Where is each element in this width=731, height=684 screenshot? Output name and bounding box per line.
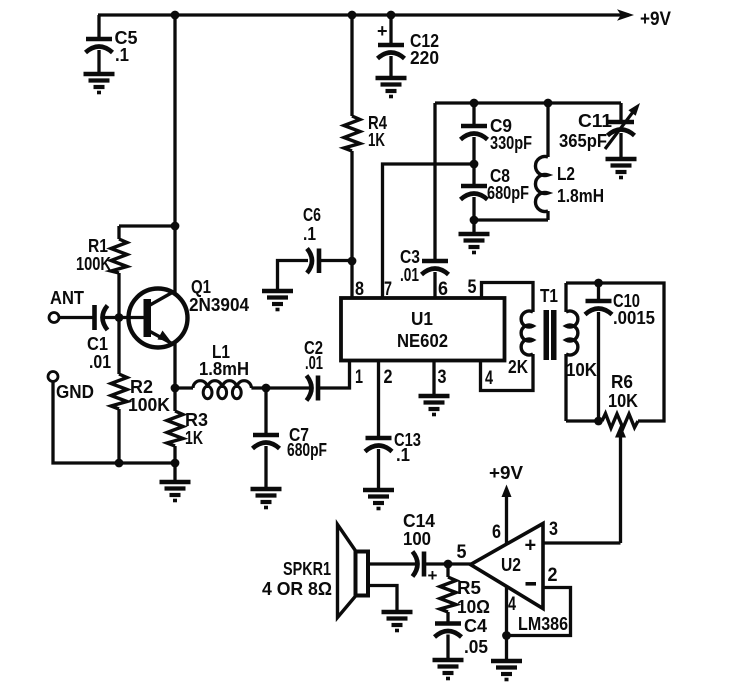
svg-text:L2: L2 — [557, 163, 575, 184]
svg-text:4 OR 8Ω: 4 OR 8Ω — [262, 578, 332, 599]
svg-text:6: 6 — [438, 279, 448, 300]
svg-text:1: 1 — [355, 367, 363, 388]
svg-text:U1: U1 — [411, 308, 433, 329]
svg-text:10K: 10K — [608, 390, 639, 411]
svg-text:ANT: ANT — [50, 287, 85, 308]
svg-text:220: 220 — [410, 47, 439, 68]
svg-text:.01: .01 — [305, 352, 323, 373]
svg-text:330pF: 330pF — [490, 132, 532, 153]
svg-text:2: 2 — [548, 565, 558, 586]
svg-text:1.8mH: 1.8mH — [199, 358, 249, 379]
svg-text:365pF: 365pF — [559, 130, 607, 151]
svg-text:4: 4 — [508, 594, 516, 615]
svg-text:5: 5 — [457, 542, 467, 563]
svg-text:5: 5 — [468, 277, 477, 298]
svg-text:6: 6 — [492, 522, 501, 543]
svg-text:.05: .05 — [464, 636, 488, 657]
svg-text:10K: 10K — [566, 359, 598, 380]
svg-text:.0015: .0015 — [613, 307, 655, 328]
svg-text:.01: .01 — [400, 264, 419, 285]
svg-text:SPKR1: SPKR1 — [283, 558, 331, 579]
svg-text:C11: C11 — [578, 110, 612, 131]
svg-text:2N3904: 2N3904 — [189, 294, 250, 315]
svg-text:+9V: +9V — [640, 9, 671, 30]
svg-text:3: 3 — [549, 519, 558, 540]
svg-text:100K: 100K — [128, 394, 171, 415]
svg-text:C6: C6 — [303, 204, 321, 225]
svg-text:.1: .1 — [115, 44, 129, 65]
svg-text:+: + — [377, 21, 388, 41]
svg-text:2K: 2K — [508, 356, 529, 377]
svg-text:C4: C4 — [464, 615, 488, 636]
svg-text:680pF: 680pF — [287, 439, 327, 460]
svg-text:NE602: NE602 — [397, 330, 448, 351]
svg-text:8: 8 — [355, 279, 364, 300]
svg-text:GND: GND — [56, 381, 94, 402]
svg-text:1.8mH: 1.8mH — [557, 185, 604, 206]
svg-text:LM386: LM386 — [518, 613, 568, 634]
svg-text:U2: U2 — [501, 554, 521, 575]
svg-text:R5: R5 — [457, 577, 481, 598]
svg-text:T1: T1 — [540, 285, 558, 306]
svg-text:2: 2 — [384, 367, 393, 388]
svg-text:680pF: 680pF — [487, 182, 529, 203]
svg-text:+: + — [525, 535, 537, 557]
svg-text:.1: .1 — [303, 223, 316, 244]
svg-text:1K: 1K — [185, 427, 203, 448]
svg-text:100K: 100K — [76, 253, 112, 274]
svg-text:3: 3 — [438, 367, 447, 388]
svg-text:4: 4 — [485, 368, 493, 389]
svg-text:+: + — [428, 566, 438, 585]
svg-text:R6: R6 — [611, 371, 633, 392]
svg-text:.1: .1 — [396, 444, 410, 465]
svg-text:.01: .01 — [89, 351, 111, 372]
svg-text:7: 7 — [384, 279, 392, 300]
svg-text:1K: 1K — [368, 129, 385, 150]
svg-text:10Ω: 10Ω — [457, 596, 490, 617]
svg-text:+9V: +9V — [489, 462, 524, 483]
svg-text:100: 100 — [403, 528, 431, 549]
